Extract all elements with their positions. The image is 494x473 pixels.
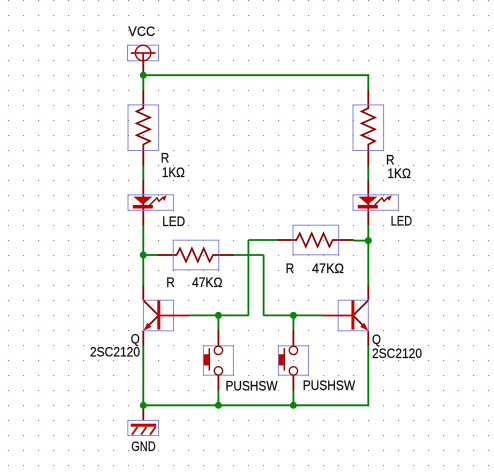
junction: ground rail at SW1 bbox=[215, 402, 222, 409]
label Q2 designator bbox=[372, 332, 381, 347]
svg-text:VCC: VCC bbox=[128, 24, 155, 39]
label GND bbox=[131, 439, 156, 454]
wire: LED2 cathode to node B bbox=[367, 225, 369, 240]
ground symbol GND bbox=[128, 405, 159, 435]
wire: Q1 emitter to ground rail bbox=[142, 346, 144, 406]
wire: R4 right to node B bbox=[354, 240, 369, 242]
label R4 designator bbox=[286, 261, 295, 276]
wire: node D down to SW2 bbox=[292, 315, 294, 331]
label LED1 bbox=[162, 214, 185, 229]
pushbutton switch SW2 right bbox=[278, 331, 308, 391]
junction: node D Q2 base bbox=[290, 312, 297, 319]
wire: top rail to R2 top bbox=[367, 74, 369, 91]
wire: SW1 bottom to ground rail bbox=[217, 390, 219, 405]
svg-text:47KΩ: 47KΩ bbox=[312, 261, 344, 276]
wire: base row into node D bbox=[264, 314, 294, 316]
label SW2 PUSHSW bbox=[303, 378, 356, 393]
wire: LED1 cathode to node A bbox=[142, 225, 144, 255]
wire: Q2 emitter to ground rail bbox=[367, 346, 369, 407]
svg-text:1KΩ: 1KΩ bbox=[162, 165, 185, 180]
svg-text:R: R bbox=[161, 151, 170, 166]
wire: node D to Q2 base bbox=[293, 314, 323, 316]
label R3 value 47K bbox=[192, 275, 223, 290]
LED D2 right bbox=[353, 181, 398, 226]
svg-text:R: R bbox=[286, 261, 295, 276]
transistor Q1 2SC2120 left bbox=[143, 286, 189, 347]
junction: node B LED2 cathode / R4 bbox=[365, 237, 372, 244]
svg-text:PUSHSW: PUSHSW bbox=[303, 378, 356, 393]
svg-text:1KΩ: 1KΩ bbox=[387, 166, 411, 181]
wire: base row into node C bbox=[218, 314, 248, 316]
svg-text:LED: LED bbox=[162, 214, 185, 229]
svg-text:47KΩ: 47KΩ bbox=[192, 275, 223, 290]
svg-text:R: R bbox=[166, 275, 175, 290]
resistor R4 47K right bbox=[278, 225, 354, 255]
wire: R3 right toward cross vertical bbox=[234, 254, 264, 256]
label R3 designator bbox=[166, 275, 175, 290]
label R4 value 47K bbox=[312, 261, 344, 276]
svg-text:LED: LED bbox=[391, 214, 413, 229]
transistor Q2 2SC2120 right bbox=[323, 286, 368, 347]
label VCC bbox=[128, 24, 155, 39]
label R1 value 1K bbox=[162, 165, 185, 180]
wire: top rail to R1 top bbox=[142, 74, 144, 91]
label Q1 part 2SC2120 bbox=[90, 345, 140, 360]
wire: cross vertical x248 down to base row bbox=[247, 240, 249, 315]
wire: top rail VCC node bbox=[143, 74, 368, 76]
label Q2 part 2SC2120 bbox=[372, 346, 422, 361]
label R2 designator bbox=[386, 153, 395, 168]
resistor R3 47K left bbox=[158, 240, 234, 270]
svg-text:Q: Q bbox=[372, 332, 381, 347]
power symbol VCC bbox=[128, 45, 159, 75]
wire: R1 bottom to LED1 anode bbox=[142, 165, 144, 181]
label R2 value 1K bbox=[387, 166, 411, 181]
wire: R4 left toward cross vertical bbox=[248, 239, 278, 241]
pushbutton switch SW1 left bbox=[203, 331, 233, 391]
wire: node C down to SW1 bbox=[217, 315, 219, 331]
label Q1 designator bbox=[131, 332, 140, 347]
wire: node A to Q1 collector bbox=[142, 255, 144, 286]
wire: Q1 base to node C bbox=[188, 314, 218, 316]
label LED2 bbox=[391, 214, 413, 229]
svg-text:2SC2120: 2SC2120 bbox=[90, 345, 140, 360]
label SW1 PUSHSW bbox=[226, 379, 278, 394]
wire: SW2 bottom to ground rail bbox=[292, 390, 294, 405]
wire: node A to R3 left bbox=[143, 254, 158, 256]
wire: node B to Q2 collector bbox=[367, 241, 369, 286]
resistor R1 1K left bbox=[128, 91, 159, 166]
svg-text:PUSHSW: PUSHSW bbox=[226, 379, 278, 394]
resistor R2 1K right bbox=[353, 91, 384, 166]
label R1 designator bbox=[161, 151, 170, 166]
wire: cross vertical x263 down to base row bbox=[263, 255, 265, 315]
LED D1 left bbox=[128, 181, 173, 226]
svg-text:GND: GND bbox=[131, 439, 156, 454]
junction: ground rail at SW2 bbox=[290, 402, 297, 409]
junction: node A LED1 cathode / R3 bbox=[140, 252, 147, 259]
wire: bottom ground rail bbox=[143, 404, 368, 406]
wire: R2 bottom to LED2 anode bbox=[367, 165, 369, 181]
junction: ground rail at GND bbox=[140, 402, 147, 409]
junction: VCC top rail node bbox=[140, 72, 147, 79]
svg-text:2SC2120: 2SC2120 bbox=[372, 346, 422, 361]
junction: node C Q1 base bbox=[215, 312, 222, 319]
